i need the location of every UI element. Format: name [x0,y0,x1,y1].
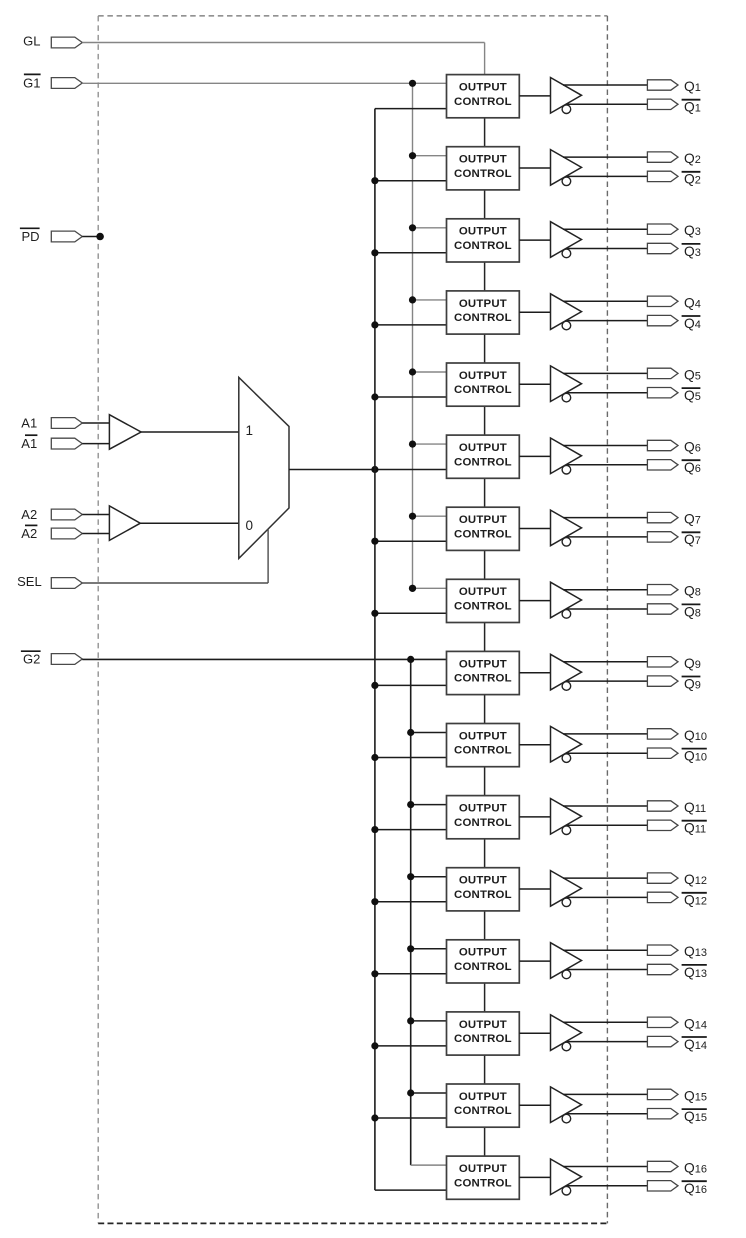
pin Q2 connector symbol [647,152,678,162]
junction dot mux branch row 10 [371,754,378,761]
svg-text:CONTROL: CONTROL [454,312,512,324]
pin Q7 connector symbol [647,512,678,522]
pin Q3bar connector symbol [647,243,678,253]
wire G1 bus branch to OUTPUT CONTROL 5 [413,371,449,373]
wire Q8bar output [567,608,649,610]
svg-text:CONTROL: CONTROL [454,240,512,252]
output control block 7 [447,507,520,550]
pin SEL connector symbol [51,578,82,589]
wire Q1 output [563,84,648,86]
wire Q3 output [563,228,648,230]
pin Q6bar connector symbol [647,460,678,470]
pin Q5 connector symbol [647,368,678,378]
svg-text:CONTROL: CONTROL [454,1033,512,1045]
svg-text:GL: GL [23,34,40,49]
svg-text:A2: A2 [21,526,37,541]
svg-text:OUTPUT: OUTPUT [459,1091,507,1103]
svg-text:Q8: Q8 [684,584,701,599]
output control block 10 [447,724,520,767]
wire Q12bar output [567,896,649,898]
svg-text:CONTROL: CONTROL [454,1105,512,1117]
pin Q2bar connector symbol [647,171,678,181]
wire SEL horizontal [82,582,268,584]
output control block 1 [447,75,520,118]
svg-text:Q1: Q1 [684,79,701,94]
pin Q4 connector symbol [647,296,678,306]
wire OUTPUT CONTROL 11 to driver [519,816,550,818]
svg-text:Q12: Q12 [684,872,707,887]
junction dot mux output on bus [371,466,378,473]
wire G2 bus branch to OUTPUT CONTROL 13 [411,948,449,950]
device boundary dashed box: right edge [606,16,608,1224]
output driver buffer 3 [551,222,582,258]
pin Q6 connector symbol [647,440,678,450]
svg-text:Q9: Q9 [684,656,701,671]
svg-text:OUTPUT: OUTPUT [459,1019,507,1031]
svg-text:OUTPUT: OUTPUT [459,442,507,454]
output driver buffer 6 [551,438,582,474]
wire Q4 output [563,300,648,302]
svg-text:G1: G1 [23,76,40,91]
pin Q11bar label [682,821,707,836]
svg-text:CONTROL: CONTROL [454,384,512,396]
output control block 15 [447,1084,520,1127]
junction dot PD at boundary [96,233,104,241]
svg-text:Q11: Q11 [684,821,706,836]
pin Q13 connector symbol [647,945,678,955]
inverter bubble on driver 15 [562,1114,571,1123]
inverter bubble on driver 14 [562,1042,571,1051]
svg-text:PD: PD [21,229,39,244]
pin A2bar connector symbol [51,528,82,539]
wire Q3bar output [567,248,649,250]
inverter bubble on driver 13 [562,970,571,979]
svg-text:Q9: Q9 [684,676,701,691]
pin Q14 connector symbol [647,1017,678,1027]
output control block 6 [447,435,520,478]
wire mux bus branch to OUTPUT CONTROL 4 lower input [375,324,449,326]
junction dot mux branch row 14 [371,1042,378,1049]
pin Q16bar connector symbol [647,1181,678,1191]
output control block 3 [447,219,520,262]
svg-text:OUTPUT: OUTPUT [459,947,507,959]
svg-text:Q6: Q6 [684,460,701,475]
wire G1 bus branch to OUTPUT CONTROL 6 [413,443,449,445]
wire mux bus branch to OUTPUT CONTROL 1 lower input [375,108,449,110]
svg-text:Q15: Q15 [684,1088,707,1103]
wire G2 bus elbow to box 16 upper input [411,1164,449,1166]
pin A1bar connector symbol [51,438,82,449]
svg-text:Q7: Q7 [684,532,701,547]
wire mux bus branch to OUTPUT CONTROL 16 lower input [375,1189,449,1191]
wire G2 to box 9 upper input [82,658,448,660]
wire G1 bus branch to OUTPUT CONTROL 3 [413,227,449,229]
wire Q2bar output [567,175,649,177]
output control block 16 [447,1156,520,1199]
svg-text:OUTPUT: OUTPUT [459,82,507,94]
junction dot G1 branch row 6 [409,441,416,448]
pin Q12 connector symbol [647,873,678,883]
wire PD stub [82,236,100,238]
svg-text:CONTROL: CONTROL [454,673,512,685]
wire G1 to box 1 upper input [82,82,448,84]
output control block 5 [447,363,520,406]
pin PD connector symbol [51,231,82,242]
svg-text:OUTPUT: OUTPUT [459,154,507,166]
svg-text:Q14: Q14 [684,1037,707,1052]
inverter bubble on driver 10 [562,754,571,763]
svg-text:OUTPUT: OUTPUT [459,586,507,598]
output driver buffer 5 [551,366,582,402]
pin Q14bar label [682,1037,707,1052]
wire mux bus branch to OUTPUT CONTROL 2 lower input [375,180,449,182]
wire mux bus branch to OUTPUT CONTROL 9 lower input [375,684,449,686]
GL chain vertical bus through output control blocks [484,75,486,1157]
output driver buffer 4 [551,294,582,330]
wire mux bus branch to OUTPUT CONTROL 12 lower input [375,901,449,903]
wire SEL up to mux select [267,529,269,583]
svg-text:Q5: Q5 [684,388,701,403]
wire mux bus branch to OUTPUT CONTROL 3 lower input [375,252,449,254]
svg-text:Q10: Q10 [684,749,707,764]
wire Q13 output [563,949,648,951]
wire mux output to distribution bus [289,469,449,471]
output control block 13 [447,940,520,983]
svg-text:Q3: Q3 [684,244,701,259]
wire G2 bus branch to OUTPUT CONTROL 15 [411,1092,449,1094]
pin Q11bar connector symbol [647,820,678,830]
svg-text:OUTPUT: OUTPUT [459,730,507,742]
wire OUTPUT CONTROL 7 to driver [519,528,550,530]
output control block 4 [447,291,520,334]
svg-text:Q1: Q1 [684,100,701,115]
pin A1 connector symbol [51,418,82,429]
pin Q15bar connector symbol [647,1109,678,1119]
junction dot mux branch row 9 [371,682,378,689]
output driver buffer 9 [551,654,582,690]
svg-text:Q16: Q16 [684,1181,707,1196]
wire buffer U2 output to mux input 0 [140,522,239,524]
svg-text:CONTROL: CONTROL [454,817,512,829]
svg-text:1: 1 [246,423,254,438]
wire Q14bar output [567,1041,649,1043]
svg-text:Q13: Q13 [684,965,707,980]
wire GL elbow down to first OUTPUT CONTROL [484,43,486,77]
input buffer U2 (A2 differential receiver) [109,506,140,541]
junction dot G2 branch row 15 [407,1089,414,1096]
svg-text:Q4: Q4 [684,316,701,331]
pin Q4bar connector symbol [647,315,678,325]
A2 bar overline [25,524,37,526]
wire Q11 output [563,805,648,807]
svg-text:Q6: Q6 [684,440,701,455]
wire G1 bus branch to OUTPUT CONTROL 7 [413,515,449,517]
output driver buffer 2 [551,150,582,186]
wire Q6 output [563,445,648,447]
output driver buffer 16 [551,1159,582,1195]
wire mux bus branch to OUTPUT CONTROL 11 lower input [375,829,449,831]
junction dot G1 branch row 5 [409,368,416,375]
wire OUTPUT CONTROL 6 to driver [519,455,550,457]
inverter bubble on driver 16 [562,1186,571,1195]
pin A2 connector symbol [51,509,82,520]
pin Q6bar label [682,460,701,475]
inverter bubble on driver 9 [562,682,571,691]
pin Q10bar connector symbol [647,748,678,758]
wire Q10bar output [567,752,649,754]
svg-text:Q16: Q16 [684,1161,707,1176]
wire Q8 output [563,589,648,591]
wire Q12 output [563,877,648,879]
wire G2 bus branch to OUTPUT CONTROL 12 [411,876,449,878]
pin Q5bar connector symbol [647,388,678,398]
wire G2 bus branch to OUTPUT CONTROL 10 [411,732,449,734]
output control block 11 [447,796,520,839]
wire mux bus branch to OUTPUT CONTROL 14 lower input [375,1045,449,1047]
svg-text:CONTROL: CONTROL [454,528,512,540]
svg-text:CONTROL: CONTROL [454,168,512,180]
output control block 2 [447,147,520,190]
inverter bubble on driver 11 [562,826,571,835]
wire G2 bus branch to OUTPUT CONTROL 11 [411,804,449,806]
svg-text:Q15: Q15 [684,1109,707,1124]
svg-text:Q12: Q12 [684,893,707,908]
output control block 9 [447,651,520,694]
junction dot G2 branch row 11 [407,801,414,808]
wire A1 to input buffer [82,422,109,424]
wire OUTPUT CONTROL 8 to driver [519,600,550,602]
svg-text:0: 0 [246,518,254,533]
wire mux bus branch to OUTPUT CONTROL 8 lower input [375,612,449,614]
junction dot G1 branch row 3 [409,224,416,231]
inverter bubble on driver 7 [562,538,571,547]
svg-text:Q7: Q7 [684,512,701,527]
pin Q7bar label [682,532,701,547]
wire Q9 output [563,661,648,663]
pin Q2bar label [682,172,701,187]
wire Q7 output [563,517,648,519]
wire OUTPUT CONTROL 5 to driver [519,383,550,385]
junction dot mux branch row 11 [371,826,378,833]
A1 bar overline [25,434,37,436]
svg-text:Q14: Q14 [684,1016,707,1031]
wire Q14 output [563,1021,648,1023]
wire Q16bar output [567,1185,649,1187]
wire OUTPUT CONTROL 9 to driver [519,672,550,674]
svg-text:OUTPUT: OUTPUT [459,370,507,382]
svg-text:A1: A1 [21,415,37,430]
pin Q13bar label [682,965,707,980]
output driver buffer 10 [551,726,582,762]
wire OUTPUT CONTROL 14 to driver [519,1032,550,1034]
junction dot G1 branch row 7 [409,513,416,520]
wire Q5 output [563,372,648,374]
output driver buffer 1 [551,78,582,114]
pin Q1 connector symbol [647,80,678,90]
wire Q5bar output [567,392,649,394]
pin Q14bar connector symbol [647,1036,678,1046]
output driver buffer 15 [551,1087,582,1123]
wire Q9bar output [567,680,649,682]
wire OUTPUT CONTROL 2 to driver [519,167,550,169]
junction dot mux branch row 13 [371,970,378,977]
pin Q12bar label [682,893,707,908]
svg-text:Q2: Q2 [684,172,701,187]
inverter bubble on driver 3 [562,249,571,258]
wire Q10 output [563,733,648,735]
inverter bubble on driver 12 [562,898,571,907]
wire Q1bar output [567,103,649,105]
svg-text:OUTPUT: OUTPUT [459,875,507,887]
G1 overline [24,73,41,75]
svg-text:CONTROL: CONTROL [454,889,512,901]
output driver buffer 11 [551,799,582,835]
wire A2 to input buffer [82,514,109,516]
output driver buffer 14 [551,1015,582,1051]
pin Q9bar label [682,676,701,691]
wire mux bus branch to OUTPUT CONTROL 5 lower input [375,396,449,398]
junction dot G2 branch row 10 [407,729,414,736]
svg-text:CONTROL: CONTROL [454,961,512,973]
pin G1 connector symbol [51,78,82,89]
svg-text:A1: A1 [21,436,37,451]
device boundary dashed box: bottom edge [98,1222,607,1224]
junction dot G1 branch row 4 [409,296,416,303]
wire GL from pin to elbow [82,42,484,44]
wire Q16 output [563,1166,648,1168]
wire mux bus branch to OUTPUT CONTROL 15 lower input [375,1117,449,1119]
wire mux bus branch to OUTPUT CONTROL 7 lower input [375,540,449,542]
inverter bubble on driver 2 [562,177,571,186]
wire OUTPUT CONTROL 3 to driver [519,239,550,241]
junction dot mux branch row 7 [371,538,378,545]
wire Q7bar output [567,536,649,538]
wire Q15bar output [567,1113,649,1115]
junction dot G1 branch row 8 [409,585,416,592]
pin Q1bar label [682,100,701,115]
svg-text:Q8: Q8 [684,604,701,619]
pin Q8bar connector symbol [647,604,678,614]
pin G2 connector symbol [51,654,82,665]
junction dot mux branch row 15 [371,1114,378,1121]
pin Q11 connector symbol [647,801,678,811]
svg-text:G2: G2 [23,652,40,667]
pin Q3bar label [682,244,701,259]
pin Q10bar label [682,749,707,764]
G1 vertical bus [412,83,414,588]
G2 vertical bus [410,659,412,1165]
wire Q6bar output [567,464,649,466]
pin GL connector symbol [51,37,82,48]
pin Q10 connector symbol [647,729,678,739]
pin Q15bar label [682,1109,707,1124]
pin Q15 connector symbol [647,1089,678,1099]
svg-text:OUTPUT: OUTPUT [459,514,507,526]
svg-text:A2: A2 [21,507,37,522]
pin Q5bar label [682,388,701,403]
wire mux bus branch to OUTPUT CONTROL 10 lower input [375,757,449,759]
wire OUTPUT CONTROL 16 to driver [519,1176,550,1178]
wire OUTPUT CONTROL 13 to driver [519,960,550,962]
mux distribution vertical bus [374,109,376,1191]
pin Q4bar label [682,316,701,331]
pin Q8bar label [682,604,701,619]
junction dot mux branch row 3 [371,249,378,256]
wire Q11bar output [567,824,649,826]
pin Q9bar connector symbol [647,676,678,686]
pin Q16 connector symbol [647,1161,678,1171]
output driver buffer 8 [551,582,582,618]
svg-text:OUTPUT: OUTPUT [459,658,507,670]
svg-text:CONTROL: CONTROL [454,745,512,757]
pin Q12bar connector symbol [647,892,678,902]
svg-text:OUTPUT: OUTPUT [459,226,507,238]
wire G1 bus branch to OUTPUT CONTROL 4 [413,299,449,301]
G2 overline [21,650,41,652]
wire Q15 output [563,1093,648,1095]
multiplexer MUX (2:1 select) [239,377,289,558]
inverter bubble on driver 8 [562,610,571,619]
output control block 12 [447,868,520,911]
svg-text:CONTROL: CONTROL [454,96,512,108]
junction dot mux branch row 12 [371,898,378,905]
output driver buffer 13 [551,943,582,979]
junction dot G2 branch row 13 [407,945,414,952]
svg-text:CONTROL: CONTROL [454,456,512,468]
inverter bubble on driver 5 [562,393,571,402]
output driver buffer 12 [551,871,582,907]
wire A1bar to input buffer [82,443,109,445]
pin Q9 connector symbol [647,657,678,667]
svg-text:Q2: Q2 [684,151,701,166]
svg-text:Q13: Q13 [684,944,707,959]
wire buffer U1 output to mux input 1 [141,431,239,433]
wire G1 bus branch to OUTPUT CONTROL 2 [413,155,449,157]
junction dot G2 branch row 14 [407,1017,414,1024]
pin Q7bar connector symbol [647,532,678,542]
wire Q2 output [563,156,648,158]
svg-text:Q3: Q3 [684,223,701,238]
PD overline [20,227,40,229]
wire A2bar to input buffer [82,533,109,535]
inverter bubble on driver 1 [562,105,571,114]
pin Q8 connector symbol [647,585,678,595]
output driver buffer 7 [551,510,582,546]
wire G1 bus branch to OUTPUT CONTROL 8 [413,587,449,589]
input buffer U1 (A1 differential receiver) [109,415,141,450]
output control block 8 [447,579,520,622]
pin Q3 connector symbol [647,224,678,234]
svg-text:CONTROL: CONTROL [454,1177,512,1189]
wire OUTPUT CONTROL 15 to driver [519,1104,550,1106]
junction dot mux branch row 4 [371,321,378,328]
wire Q4bar output [567,320,649,322]
junction dot mux branch row 8 [371,610,378,617]
junction dot G2 branch row 12 [407,873,414,880]
wire OUTPUT CONTROL 1 to driver [519,95,550,97]
pin Q1bar connector symbol [647,99,678,109]
svg-text:OUTPUT: OUTPUT [459,298,507,310]
junction dot G2 branch row 9 [407,656,414,663]
inverter bubble on driver 4 [562,321,571,330]
wire mux bus branch to OUTPUT CONTROL 13 lower input [375,973,449,975]
svg-text:CONTROL: CONTROL [454,601,512,613]
device boundary dashed box: top edge [98,15,607,17]
junction dot G1 branch row 2 [409,152,416,159]
junction dot G1 bus end at box 8 [409,585,416,592]
pin Q16bar label [682,1181,707,1196]
svg-text:Q11: Q11 [684,800,706,815]
